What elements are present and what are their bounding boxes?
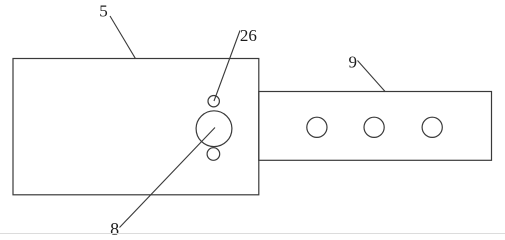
hole 8 (large circle) bbox=[196, 111, 232, 147]
plate 5 (large left rectangle) bbox=[13, 59, 259, 195]
svg-text:9: 9 bbox=[348, 52, 357, 71]
svg-text:26: 26 bbox=[240, 26, 257, 45]
hole (right circle in arm) bbox=[422, 117, 442, 137]
hole (left circle in arm) bbox=[307, 117, 327, 137]
svg-text:5: 5 bbox=[99, 1, 108, 20]
arm 9 (right rectangle) bbox=[259, 92, 492, 161]
leader line for label 5 bbox=[110, 16, 135, 58]
leader line for label 8 bbox=[120, 128, 216, 228]
leader line for label 9 bbox=[358, 61, 386, 92]
lower small circle bbox=[207, 148, 220, 161]
leader line for label 26 bbox=[214, 31, 240, 102]
svg-text:8: 8 bbox=[110, 219, 119, 235]
small hole 26 (upper small circle) bbox=[208, 96, 219, 107]
hole (middle circle in arm) bbox=[364, 117, 384, 137]
bottom page rule bbox=[0, 233, 505, 235]
